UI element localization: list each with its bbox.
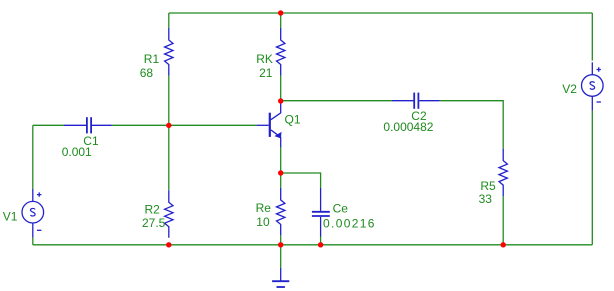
node top RK junction bbox=[278, 10, 283, 15]
resistor RK bbox=[277, 28, 285, 76]
capacitor Ce bbox=[312, 188, 330, 237]
wire bottom rail bbox=[33, 244, 593, 246]
svg-text:R5: R5 bbox=[480, 179, 496, 193]
node R2-ground junction bbox=[166, 242, 171, 247]
wire C1 left segment bbox=[33, 124, 64, 126]
wire V1 top riser bbox=[32, 125, 34, 189]
svg-text:Ce: Ce bbox=[333, 202, 349, 216]
node emitter junction bbox=[278, 170, 283, 175]
resistor R1 bbox=[165, 28, 173, 76]
wire Ce bottom bbox=[320, 237, 322, 245]
wire R1 top drop bbox=[168, 13, 170, 28]
wire C1 to base node bbox=[112, 124, 257, 126]
svg-text:Re: Re bbox=[256, 201, 272, 215]
svg-text:0.00216: 0.00216 bbox=[323, 217, 376, 231]
node base junction bbox=[166, 123, 171, 128]
transistor Q1 bbox=[257, 101, 282, 147]
svg-text:R1: R1 bbox=[144, 52, 160, 66]
svg-text:27.5: 27.5 bbox=[142, 216, 166, 230]
svg-text:0.000482: 0.000482 bbox=[383, 120, 433, 134]
voltage source V2 bbox=[582, 62, 604, 111]
node Ce-ground junction bbox=[318, 242, 323, 247]
svg-text:R2: R2 bbox=[145, 202, 161, 216]
capacitor C2 bbox=[392, 93, 440, 109]
wire V2 bottom drop bbox=[591, 111, 593, 245]
wire V1 bottom drop bbox=[32, 238, 34, 245]
resistor Re bbox=[277, 188, 285, 236]
wire R5 bottom bbox=[502, 196, 504, 245]
node Re-ground junction bbox=[278, 242, 283, 247]
capacitor C1 bbox=[64, 117, 112, 133]
wire emitter node to Re bbox=[280, 173, 282, 188]
resistor R5 bbox=[499, 149, 507, 197]
wire ground drop bbox=[280, 245, 282, 268]
svg-text:RK: RK bbox=[256, 52, 273, 66]
svg-text:Q1: Q1 bbox=[285, 112, 301, 126]
wire collector to C2 bbox=[281, 100, 392, 102]
wire C2 to R5 corner bbox=[440, 101, 503, 149]
svg-text:33: 33 bbox=[479, 192, 493, 206]
wire top rail bbox=[169, 12, 593, 14]
wire emitter node to Ce branch bbox=[281, 173, 321, 188]
svg-text:68: 68 bbox=[140, 66, 154, 80]
wire V2 top drop bbox=[591, 13, 593, 61]
wire emitter drop bbox=[280, 147, 282, 173]
wire RK top drop bbox=[280, 13, 282, 28]
svg-text:V1: V1 bbox=[3, 210, 18, 224]
svg-text:0.001: 0.001 bbox=[62, 145, 92, 159]
node collector junction bbox=[278, 98, 283, 103]
ground bbox=[272, 268, 289, 287]
node R5-ground junction bbox=[501, 242, 506, 247]
voltage source V1 bbox=[22, 189, 44, 238]
svg-text:10: 10 bbox=[256, 215, 270, 229]
svg-text:21: 21 bbox=[259, 66, 273, 80]
resistor R2 bbox=[165, 190, 173, 238]
svg-text:V2: V2 bbox=[562, 82, 577, 96]
wire R1-base-R2 vertical bbox=[168, 76, 170, 191]
wire Re bottom bbox=[280, 235, 282, 244]
wire RK bottom to collector node bbox=[280, 76, 282, 102]
